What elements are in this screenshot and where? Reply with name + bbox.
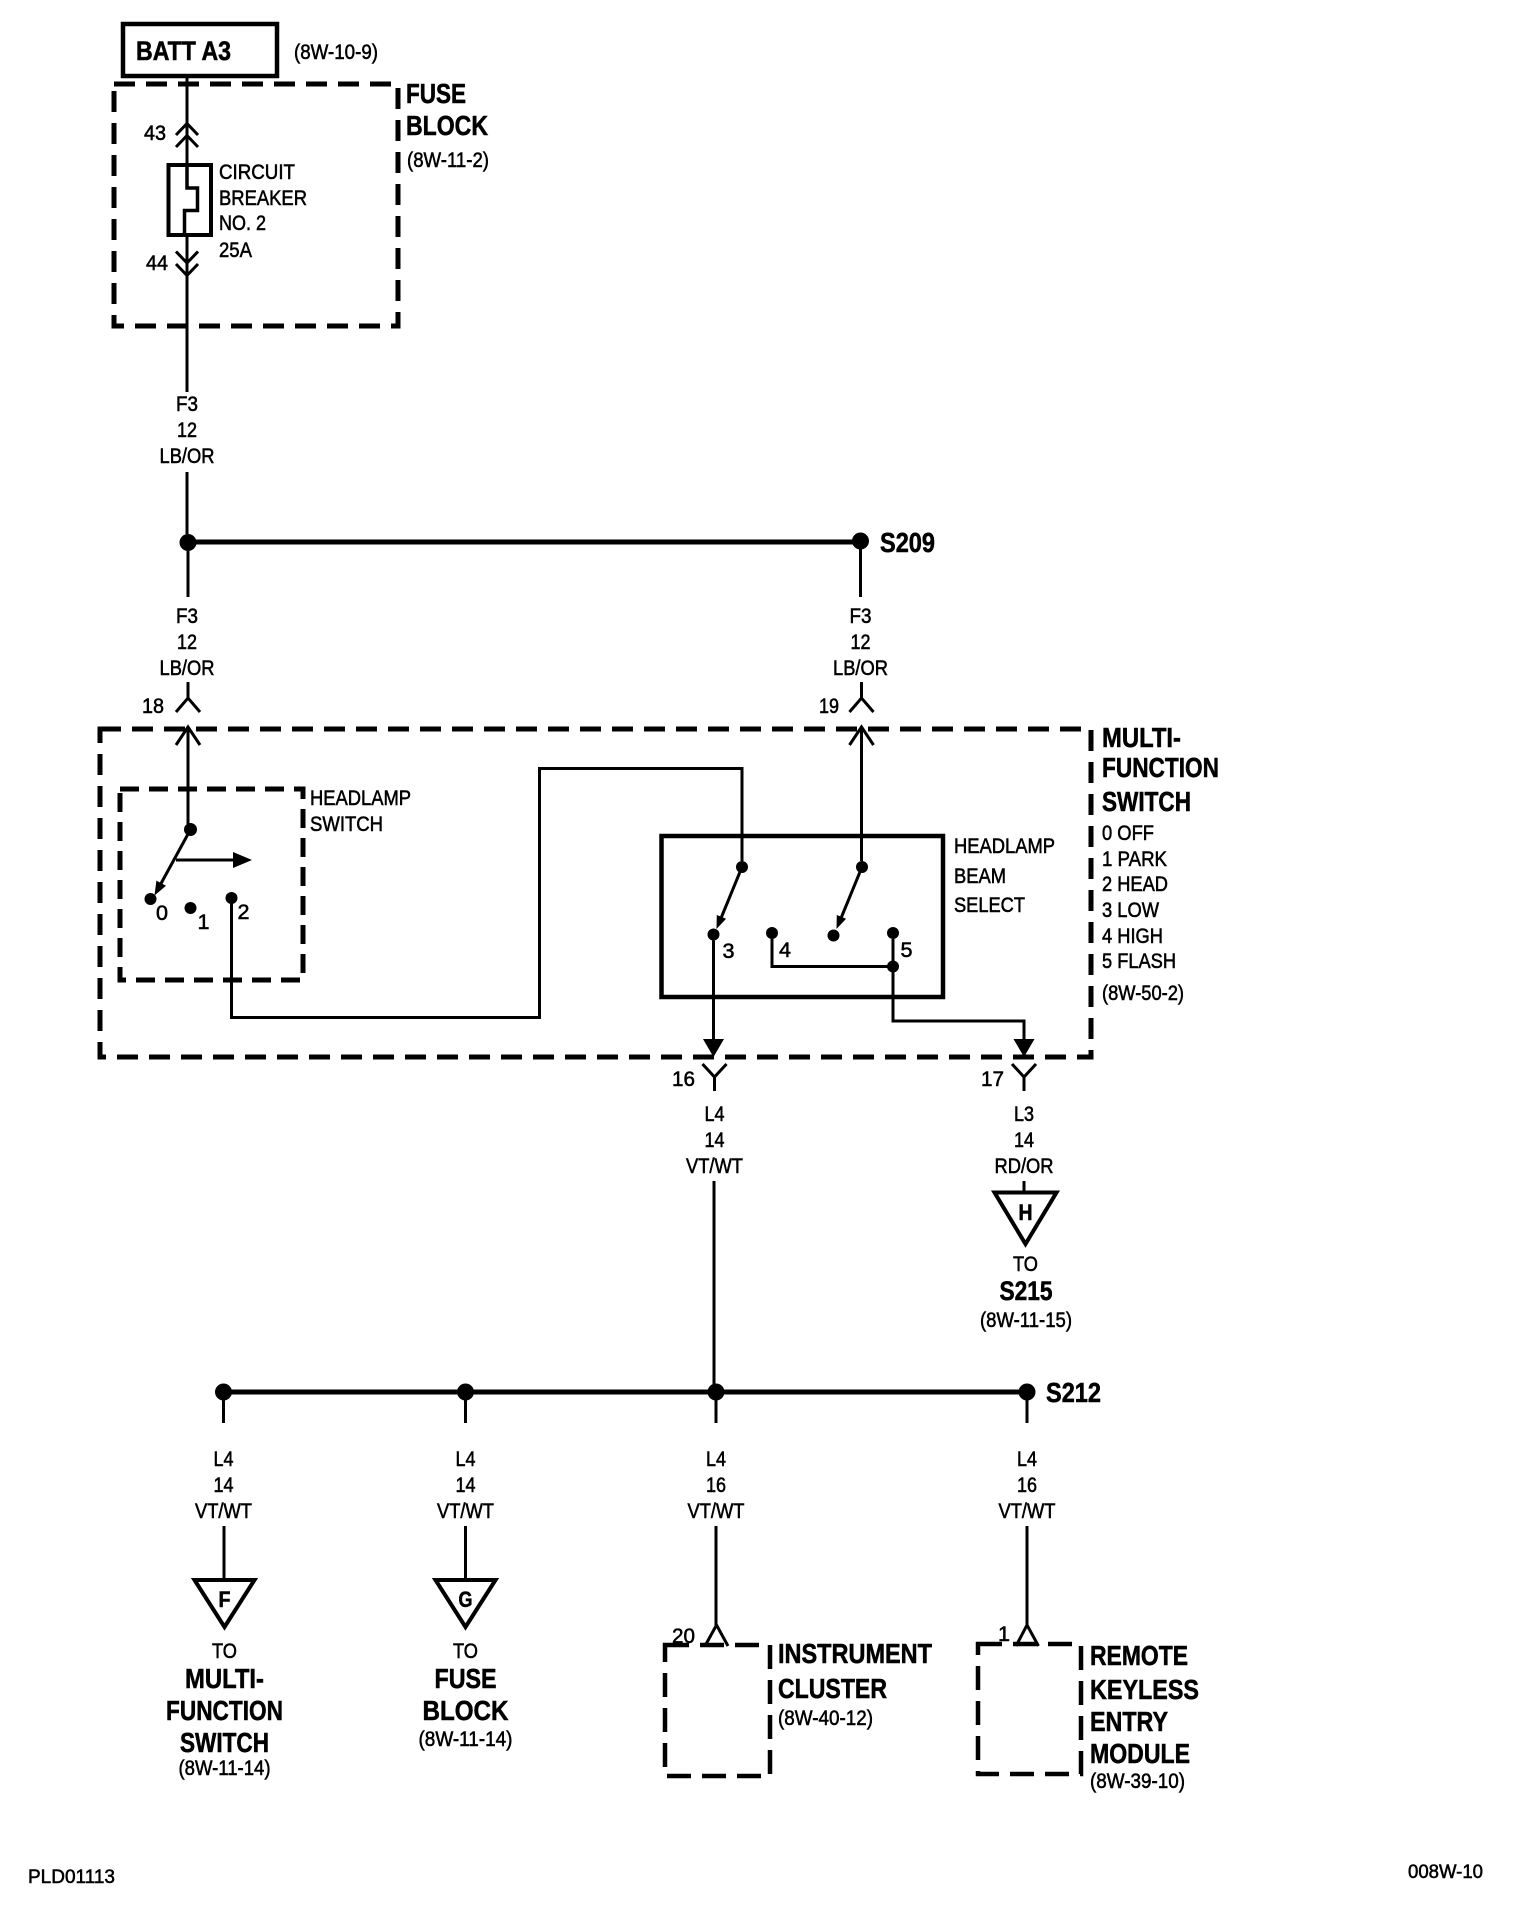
svg-text:L4: L4 — [1017, 1448, 1037, 1471]
svg-text:12: 12 — [177, 631, 197, 654]
svg-text:S212: S212 — [1046, 1377, 1101, 1408]
svg-text:FUSE: FUSE — [406, 78, 466, 109]
svg-text:LB/OR: LB/OR — [833, 657, 888, 680]
pin 20 connector — [705, 1625, 728, 1646]
headlamp switch dashed outline — [120, 789, 303, 980]
wire breaker to node S209 — [186, 235, 189, 392]
junction dot branch F — [215, 1384, 232, 1401]
svg-text:16: 16 — [672, 1068, 695, 1091]
svg-text:25A: 25A — [219, 239, 252, 262]
svg-text:HEADLAMP: HEADLAMP — [310, 787, 411, 810]
wire stub RKE branch — [1026, 1400, 1029, 1423]
wire label F3 12 LB/OR left branch — [160, 605, 215, 680]
splice bus S209 — [188, 540, 860, 545]
wire label L3 14 RD/OR — [995, 1103, 1054, 1178]
contact 0 — [145, 893, 157, 905]
node S212 dot — [1019, 1384, 1036, 1401]
beam select right lever — [837, 867, 863, 929]
svg-text:SWITCH: SWITCH — [180, 1727, 269, 1758]
contact 2 — [226, 892, 238, 904]
svg-text:008W-10: 008W-10 — [1408, 1861, 1483, 1883]
svg-text:(8W-39-10): (8W-39-10) — [1090, 1770, 1185, 1793]
destination label TO MULTI-FUNCTION SWITCH — [166, 1640, 283, 1780]
svg-text:(8W-11-14): (8W-11-14) — [419, 1728, 513, 1751]
instrument cluster dashed outline — [665, 1645, 770, 1776]
svg-text:SWITCH: SWITCH — [1102, 786, 1191, 817]
svg-text:14: 14 — [456, 1474, 476, 1497]
svg-text:4 HIGH: 4 HIGH — [1102, 925, 1163, 948]
svg-text:BEAM: BEAM — [954, 865, 1006, 888]
svg-text:2 HEAD: 2 HEAD — [1102, 873, 1168, 896]
multi-function switch label legend — [1102, 722, 1219, 1005]
headlamp switch direction arrow — [176, 852, 252, 868]
connector G triangle — [436, 1580, 496, 1627]
svg-text:TO: TO — [453, 1640, 478, 1663]
contact 3 — [708, 929, 720, 941]
svg-text:VT/WT: VT/WT — [688, 1500, 745, 1523]
wire label L4 14 VT/WT — [686, 1103, 743, 1178]
svg-text:BLOCK: BLOCK — [423, 1695, 509, 1726]
remote keyless entry module dashed outline — [978, 1644, 1081, 1774]
contact 4 — [766, 927, 778, 939]
wire — [860, 682, 863, 698]
svg-text:BATT A3: BATT A3 — [136, 36, 231, 66]
svg-text:F: F — [219, 1587, 231, 1612]
wire pin 19 into beam select — [860, 727, 863, 861]
pin 43 connector — [176, 124, 198, 148]
connector H triangle — [995, 1193, 1057, 1245]
svg-text:NO. 2: NO. 2 — [219, 212, 266, 235]
contact 1 — [185, 902, 197, 914]
svg-text:3: 3 — [723, 940, 735, 963]
wire to connector F — [223, 1526, 226, 1580]
svg-text:5 FLASH: 5 FLASH — [1102, 950, 1176, 973]
svg-text:TO: TO — [212, 1640, 237, 1663]
svg-text:F3: F3 — [850, 605, 872, 628]
svg-text:F3: F3 — [176, 393, 198, 416]
junction dot branch G — [457, 1384, 474, 1401]
wire to connector H — [1023, 1181, 1026, 1192]
remote keyless entry module label — [1090, 1640, 1199, 1793]
wire label L4 16 VT/WT RKE — [999, 1448, 1056, 1523]
svg-text:FUNCTION: FUNCTION — [166, 1695, 283, 1726]
svg-text:L4: L4 — [705, 1103, 725, 1126]
svg-text:16: 16 — [1017, 1474, 1037, 1497]
wire contact 2 to beam select — [232, 769, 743, 1018]
svg-text:VT/WT: VT/WT — [686, 1155, 743, 1178]
svg-text:LB/OR: LB/OR — [160, 657, 215, 680]
wire stub instrument cluster branch — [715, 1400, 718, 1423]
svg-text:H: H — [1019, 1200, 1033, 1225]
beam select left feed contact — [736, 861, 748, 873]
svg-text:SELECT: SELECT — [954, 894, 1025, 917]
svg-text:RD/OR: RD/OR — [995, 1155, 1054, 1178]
svg-text:2: 2 — [238, 901, 250, 924]
wire contact 3 down to pin 16 — [703, 941, 724, 1058]
svg-text:HEADLAMP: HEADLAMP — [954, 835, 1055, 858]
svg-text:BREAKER: BREAKER — [219, 187, 307, 210]
svg-text:CIRCUIT: CIRCUIT — [219, 161, 295, 184]
headlamp switch lever — [155, 830, 191, 896]
svg-text:MULTI-: MULTI- — [1102, 722, 1181, 753]
svg-text:SWITCH: SWITCH — [310, 813, 383, 836]
svg-text:VT/WT: VT/WT — [437, 1500, 494, 1523]
instrument cluster label — [778, 1638, 932, 1730]
destination label TO FUSE BLOCK — [419, 1640, 513, 1751]
svg-text:BLOCK: BLOCK — [406, 110, 488, 141]
wire pin 16 to S212 — [713, 1181, 716, 1392]
svg-text:(8W-50-2): (8W-50-2) — [1102, 982, 1184, 1005]
svg-text:0: 0 — [156, 902, 168, 925]
headlamp switch pivot contact — [184, 823, 197, 836]
svg-text:3 LOW: 3 LOW — [1102, 899, 1159, 922]
svg-text:L4: L4 — [706, 1448, 726, 1471]
wire label L4 16 VT/WT instrument cluster — [688, 1448, 745, 1523]
svg-text:L4: L4 — [214, 1448, 234, 1471]
svg-text:(8W-40-12): (8W-40-12) — [778, 1707, 873, 1730]
svg-text:F3: F3 — [176, 605, 198, 628]
svg-text:1 PARK: 1 PARK — [1102, 848, 1167, 871]
junction contact 4-5 — [887, 961, 899, 973]
node S209 dot — [852, 533, 869, 550]
svg-text:(8W-11-2): (8W-11-2) — [407, 149, 489, 172]
wire BATT A3 to circuit breaker — [186, 76, 189, 165]
svg-text:L4: L4 — [456, 1448, 476, 1471]
pin 18 connector — [176, 698, 200, 745]
wire label F3 12 LB/OR upper — [160, 393, 215, 468]
fuse block dashed outline — [114, 84, 398, 326]
wire label F3 12 LB/OR right branch — [833, 605, 888, 680]
svg-text:14: 14 — [1014, 1129, 1034, 1152]
junction dot branch instrument cluster — [708, 1384, 725, 1401]
svg-text:12: 12 — [851, 631, 871, 654]
svg-text:17: 17 — [981, 1068, 1004, 1091]
svg-text:L3: L3 — [1014, 1103, 1034, 1126]
svg-text:(8W-11-15): (8W-11-15) — [980, 1309, 1072, 1332]
svg-text:VT/WT: VT/WT — [999, 1500, 1056, 1523]
svg-text:PLD01113: PLD01113 — [28, 1866, 115, 1888]
svg-text:INSTRUMENT: INSTRUMENT — [778, 1638, 932, 1669]
svg-text:14: 14 — [705, 1129, 725, 1152]
pin 16 connector — [703, 1064, 727, 1091]
svg-text:S215: S215 — [1000, 1276, 1053, 1306]
svg-text:VT/WT: VT/WT — [195, 1500, 252, 1523]
wire contact 4 to contact 5 — [772, 939, 893, 967]
splice bus S212 — [224, 1390, 1028, 1395]
pin 17 connector — [1012, 1064, 1036, 1091]
wire contact 5 to pin 17 — [893, 939, 1035, 1057]
svg-text:CLUSTER: CLUSTER — [778, 1673, 887, 1704]
wire — [187, 682, 190, 698]
svg-text:18: 18 — [142, 695, 164, 718]
svg-text:REMOTE: REMOTE — [1090, 1640, 1188, 1671]
destination label TO S215 — [980, 1253, 1072, 1332]
multi-function switch dashed outline — [100, 729, 1091, 1057]
svg-text:LB/OR: LB/OR — [160, 445, 215, 468]
wire label L4 14 VT/WT branch F — [195, 1448, 252, 1523]
wire to connector G — [464, 1526, 467, 1580]
wire to instrument cluster pin 20 — [715, 1526, 718, 1625]
svg-text:14: 14 — [214, 1474, 234, 1497]
wire — [859, 549, 862, 597]
wire — [186, 472, 189, 534]
wire pin 18 into switch — [187, 727, 190, 824]
svg-text:44: 44 — [146, 252, 168, 275]
svg-text:S209: S209 — [880, 527, 935, 558]
wire stub branch F — [222, 1400, 225, 1423]
wire to RKE pin 1 — [1026, 1526, 1029, 1625]
pin 19 connector — [850, 698, 874, 745]
common contact — [828, 930, 840, 942]
svg-text:KEYLESS: KEYLESS — [1090, 1674, 1199, 1705]
junction S209 left dot — [180, 534, 197, 551]
pin 44 connector — [176, 252, 198, 276]
connector F triangle — [195, 1580, 255, 1627]
svg-text:MODULE: MODULE — [1090, 1738, 1190, 1769]
circuit breaker No. 2 25A — [169, 165, 212, 235]
svg-text:MULTI-: MULTI- — [185, 1663, 264, 1694]
contact 5 — [887, 927, 899, 939]
svg-text:5: 5 — [901, 939, 913, 962]
svg-text:FUNCTION: FUNCTION — [1102, 752, 1219, 783]
headlamp beam select box — [662, 836, 944, 997]
svg-text:(8W-11-14): (8W-11-14) — [179, 1757, 271, 1780]
beam select right feed contact — [856, 861, 868, 873]
svg-text:FUSE: FUSE — [435, 1663, 497, 1694]
wire — [187, 551, 190, 597]
svg-text:0 OFF: 0 OFF — [1102, 822, 1154, 845]
svg-text:19: 19 — [819, 695, 839, 718]
svg-text:TO: TO — [1013, 1253, 1038, 1276]
beam select left lever — [717, 867, 743, 929]
headlamp beam select label — [954, 835, 1055, 917]
svg-text:(8W-10-9): (8W-10-9) — [294, 41, 378, 64]
wire stub branch G — [464, 1400, 467, 1423]
svg-text:43: 43 — [144, 122, 166, 145]
fuse block label — [406, 78, 489, 172]
svg-text:1: 1 — [198, 911, 210, 934]
svg-text:ENTRY: ENTRY — [1090, 1706, 1168, 1737]
wire label L4 14 VT/WT branch G — [437, 1448, 494, 1523]
svg-text:12: 12 — [177, 419, 197, 442]
svg-text:G: G — [459, 1587, 473, 1612]
headlamp switch label — [310, 787, 411, 836]
svg-text:16: 16 — [706, 1474, 726, 1497]
svg-text:4: 4 — [779, 939, 791, 962]
pin 1 connector — [1016, 1625, 1039, 1646]
circuit breaker value label — [219, 161, 307, 262]
battery feed BATT A3 box — [123, 24, 277, 76]
